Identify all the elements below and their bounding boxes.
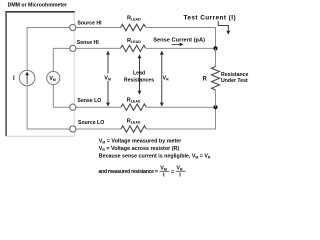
svg-text:Sense HI: Sense HI xyxy=(77,40,99,46)
wire: Sense HI terminal to lead resistor xyxy=(76,47,121,49)
label VM xyxy=(104,74,113,82)
wire: resistor R to node B xyxy=(215,90,217,107)
terminal Source HI xyxy=(70,24,76,30)
terminal Source LO xyxy=(70,126,76,132)
svg-text:Resistances: Resistances xyxy=(124,77,154,83)
wire: Source HI terminal to lead resistor xyxy=(76,27,121,29)
test current elbow arrow xyxy=(218,21,228,32)
svg-text:Under Test: Under Test xyxy=(221,78,248,84)
resistor R_LEAD source LO xyxy=(121,126,146,132)
wire: current source bottom to Source LO xyxy=(27,86,70,129)
wire: sense LO lead resistor to node B xyxy=(147,106,216,108)
svg-text:RLEAD: RLEAD xyxy=(127,16,141,22)
svg-text:I: I xyxy=(163,172,165,178)
svg-text:and measured resistance =: and measured resistance = xyxy=(98,169,158,175)
DMM box bottom edge (faint) xyxy=(6,135,75,137)
terminal Sense HI xyxy=(70,45,76,51)
wire: node A to resistor R xyxy=(215,48,217,66)
resistor R_LEAD source HI xyxy=(121,24,146,30)
svg-text:VR: VR xyxy=(176,166,183,172)
svg-text:Resistance: Resistance xyxy=(221,72,249,78)
voltmeter VM xyxy=(47,71,60,84)
terminal Sense LO xyxy=(70,104,76,110)
VM measuring arrow xyxy=(107,54,109,104)
wire: sense HI lead resistor to node A xyxy=(146,47,215,49)
node A (top junction dot) xyxy=(213,46,217,50)
wire: Sense LO terminal to lead resistor xyxy=(76,106,121,108)
svg-text:Test Current (I): Test Current (I) xyxy=(184,15,237,22)
wire: lead resistor to top-right corner, down to node xyxy=(146,28,215,47)
DMM box top edge xyxy=(6,11,75,13)
svg-text:RLEAD: RLEAD xyxy=(127,118,141,124)
node B (bottom junction dot) xyxy=(213,105,217,109)
wire: Source LO terminal to lead resistor xyxy=(76,128,121,130)
svg-text:DMM or Microohmmeter: DMM or Microohmmeter xyxy=(8,3,67,9)
wire: voltmeter top to Sense HI xyxy=(53,48,69,71)
lead resistances arrow xyxy=(139,58,141,92)
svg-text:R: R xyxy=(203,76,208,82)
VR measuring arrow xyxy=(161,54,163,104)
svg-text:VM: VM xyxy=(160,166,167,172)
svg-text:Sense LO: Sense LO xyxy=(77,98,101,104)
sense current arrow xyxy=(172,43,181,45)
current source I xyxy=(19,70,35,86)
DMM box left edge xyxy=(5,11,7,136)
svg-text:RLEAD: RLEAD xyxy=(127,38,141,44)
svg-text:I: I xyxy=(13,76,15,82)
svg-text:Source LO: Source LO xyxy=(78,120,104,126)
wire: source LO lead resistor to bottom-right corner, up to node B xyxy=(147,107,216,129)
wire: voltmeter bottom to Sense LO xyxy=(53,85,69,108)
svg-text:I: I xyxy=(179,172,181,178)
resistor R (under test) xyxy=(212,67,220,90)
svg-text:VM = Voltage measured by meter: VM = Voltage measured by meter xyxy=(99,139,182,145)
resistor R_LEAD sense HI xyxy=(121,45,146,51)
svg-text:Sense Current (pA): Sense Current (pA) xyxy=(153,38,205,44)
svg-text:RLEAD: RLEAD xyxy=(127,97,141,103)
svg-text:Source HI: Source HI xyxy=(77,20,102,26)
svg-text:=: = xyxy=(171,169,175,175)
label VR xyxy=(162,74,170,82)
svg-text:VR = Voltage across resistor (: VR = Voltage across resistor (R) xyxy=(99,146,180,152)
svg-text:Lead: Lead xyxy=(133,70,145,76)
resistor R_LEAD sense LO xyxy=(121,104,146,110)
wire: current source top to Source HI xyxy=(27,28,70,71)
svg-text:Because sense current is negli: Because sense current is negligible, VM … xyxy=(99,154,211,160)
DMM box right edge (faint) xyxy=(73,13,75,137)
